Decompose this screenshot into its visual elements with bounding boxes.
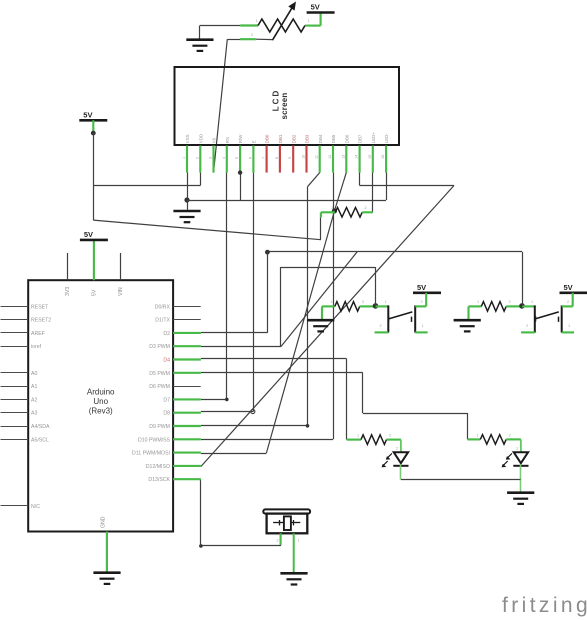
svg-text:1: 1 [182, 157, 186, 159]
svg-text:2: 2 [396, 447, 398, 451]
pot wiper leg [240, 38, 256, 40]
svg-text:E: E [252, 140, 257, 143]
pushbutton S1 lever [389, 312, 413, 322]
wire D5 to R4 [201, 373, 468, 440]
svg-text:D12/MISO: D12/MISO [146, 464, 170, 470]
svg-text:13: 13 [341, 155, 345, 159]
label LCD [272, 89, 281, 111]
LCD pin leg LED+ [372, 146, 374, 173]
pushbutton S1 right contact [415, 305, 427, 332]
Arduino label D13/SCK [148, 477, 170, 483]
LCD pin number DB5 [328, 155, 332, 159]
Arduino label D2 [163, 331, 170, 337]
dot RW leg end [238, 170, 242, 174]
svg-text:D4: D4 [163, 358, 170, 364]
wire 5V to VDD [93, 133, 200, 185]
LCD pin label DB2 [291, 134, 296, 143]
Arduino pin D6 PWM [173, 386, 201, 388]
svg-text:1: 1 [477, 300, 479, 304]
wire 5V to backlight resistor [93, 186, 321, 240]
LCD pin leg DB2 [292, 146, 294, 173]
power 5V (Arduino) [80, 230, 108, 240]
svg-text:AREF: AREF [31, 331, 45, 337]
svg-text:2: 2 [251, 33, 253, 37]
ground GND4 (piezo) [280, 573, 307, 584]
svg-text:N/C: N/C [31, 504, 40, 510]
wire D4 to R3 [201, 359, 347, 440]
LCD pin leg DB4 [319, 146, 321, 173]
svg-text:DB7: DB7 [358, 134, 363, 143]
svg-text:9: 9 [288, 157, 292, 159]
LED LED2 [502, 452, 529, 467]
piezo crystal [273, 516, 300, 530]
svg-text:1: 1 [256, 19, 258, 23]
terminal speck 18 [298, 539, 300, 543]
LCD screen U2 body [175, 67, 400, 145]
svg-text:D5 PWM: D5 PWM [149, 371, 170, 377]
svg-text:D8: D8 [163, 411, 170, 417]
LCD pin label LED+ [371, 132, 376, 144]
LCD pin number DB6 [341, 155, 345, 159]
svg-text:1: 1 [477, 434, 479, 438]
Arduino label D4 [163, 358, 170, 364]
svg-text:2: 2 [389, 434, 391, 438]
svg-text:VSS: VSS [185, 134, 190, 143]
Arduino pin D0/RX [173, 306, 201, 308]
pot wiper arrow [272, 3, 295, 41]
Arduino pin 3V3 [67, 253, 69, 280]
svg-text:A0: A0 [31, 371, 37, 377]
Arduino pin D3 PWM [173, 345, 201, 347]
label Uno [93, 397, 108, 406]
LCD pin leg DB5 [332, 146, 334, 173]
backlight resistor R2 right leg [362, 211, 373, 213]
svg-text:2: 2 [567, 300, 569, 304]
terminal speck 24 [568, 324, 570, 328]
Arduino pin A5/SCL [1, 439, 29, 441]
junction dot 5V-LCD [91, 131, 96, 136]
terminal speck 11 [389, 434, 391, 438]
svg-text:16: 16 [381, 155, 385, 159]
wire S2 to D2 [201, 250, 523, 333]
svg-text:2: 2 [277, 539, 279, 543]
wire DB6 to D11 [201, 173, 346, 454]
resistor S2 [481, 302, 506, 312]
Arduino pin GND [106, 532, 108, 572]
backlight resistor R2 [335, 208, 362, 218]
svg-text:2: 2 [509, 434, 511, 438]
LCD pin leg VDD [199, 146, 201, 173]
LCD pin number LED+ [368, 155, 372, 159]
Arduino label D7 [163, 397, 170, 403]
svg-text:3V3: 3V3 [65, 287, 71, 296]
pot left leg [240, 24, 258, 26]
resistor R3 [361, 435, 387, 445]
LCD pin leg V0 [212, 146, 214, 173]
ground GND2 (VSS) [173, 200, 200, 222]
LCD pin label DB0 [265, 134, 270, 143]
terminal speck 2 [331, 300, 333, 304]
svg-text:DB3: DB3 [305, 134, 310, 143]
Arduino pin D1/TX [173, 319, 201, 321]
LCD pin number E [248, 157, 252, 159]
Arduino label GND [101, 516, 107, 528]
resistor S2 left leg [469, 305, 482, 307]
svg-text:1: 1 [308, 19, 310, 23]
power 5V (S2) [560, 283, 587, 293]
junction dot VSS [184, 197, 189, 202]
ground GND1 (pot) [186, 26, 213, 51]
svg-text:D6 PWM: D6 PWM [149, 384, 170, 390]
Arduino pin D9 PWM [173, 425, 201, 427]
svg-text:1: 1 [422, 324, 424, 328]
Arduino label AREF [31, 331, 45, 337]
resistor R3 right leg [387, 440, 401, 453]
svg-text:V0: V0 [212, 137, 217, 143]
Arduino top label VIN [118, 287, 124, 296]
LCD pin number R/W [235, 157, 239, 159]
junction dot DB6 bend [332, 208, 337, 213]
Arduino label D5 PWM [149, 371, 170, 377]
svg-text:12: 12 [328, 155, 332, 159]
Arduino label A0 [31, 371, 37, 377]
svg-text:D9 PWM: D9 PWM [149, 424, 170, 430]
svg-text:A5/SCL: A5/SCL [31, 437, 49, 443]
LCD pin number DB2 [288, 157, 292, 159]
LCD pin number VDD [195, 157, 199, 159]
svg-text:2: 2 [380, 324, 382, 328]
resistor R4 right leg [506, 439, 521, 452]
Arduino pin RESET [1, 306, 29, 308]
svg-text:1: 1 [385, 300, 387, 304]
pushbutton S2 left contact [521, 305, 535, 332]
wire DB7 to D12 diagonal [201, 186, 454, 467]
Arduino pin AREF [1, 332, 29, 334]
potentiometer R1 zigzag [258, 19, 305, 32]
Arduino pin D8 [173, 412, 201, 414]
svg-text:D1/TX: D1/TX [155, 318, 170, 324]
label Arduino [87, 388, 115, 397]
wire E to D8 [201, 173, 255, 414]
Arduino pin A2 [1, 399, 29, 401]
resistor S2 right leg [506, 305, 522, 307]
svg-text:(Rev3): (Rev3) [89, 407, 113, 416]
terminal speck 4 [385, 300, 387, 304]
LCD pin number DB3 [302, 155, 306, 159]
Arduino label A1 [31, 384, 37, 390]
label screen [280, 93, 289, 120]
LCD pin label LED- [384, 133, 389, 144]
junction dot S2 [519, 303, 525, 309]
svg-text:GND: GND [101, 516, 107, 528]
Arduino pin ioref [1, 346, 29, 348]
svg-text:4: 4 [222, 157, 226, 159]
svg-text:LED+: LED+ [371, 132, 376, 144]
power 5V (LCD VDD) [79, 110, 107, 120]
wire LED- down [386, 173, 388, 200]
Arduino label D10 PWM/SS [138, 437, 171, 443]
svg-text:6: 6 [248, 157, 252, 159]
svg-text:8: 8 [275, 157, 279, 159]
wire piezo to D13 [199, 479, 281, 547]
svg-text:1: 1 [568, 324, 570, 328]
resistor R3 left leg [347, 439, 361, 441]
LCD pin label RS [225, 137, 230, 143]
wire DB4 to D9 [201, 173, 320, 428]
svg-text:A4/SDA: A4/SDA [31, 424, 50, 430]
svg-text:2: 2 [195, 157, 199, 159]
svg-text:Arduino: Arduino [87, 388, 115, 397]
svg-text:D0/RX: D0/RX [155, 304, 171, 310]
Arduino label D6 PWM [149, 384, 170, 390]
LCD pin leg DB3 [305, 146, 307, 173]
Arduino label RESET [31, 304, 49, 310]
Arduino label ioref [31, 344, 42, 350]
fritzing watermark [502, 594, 587, 617]
Arduino label A3 [31, 411, 37, 417]
svg-text:DB6: DB6 [344, 134, 349, 143]
svg-text:D2: D2 [163, 331, 170, 337]
power 5V (S1) [413, 283, 441, 293]
LCD pin number VSS [182, 157, 186, 159]
wire LED1 cathode [400, 465, 402, 480]
svg-text:1: 1 [331, 300, 333, 304]
piezo pin 1 leg [280, 533, 282, 544]
Arduino label D11 PWM/MOSI [132, 451, 170, 457]
LCD pin leg RS [226, 146, 228, 173]
svg-text:D7: D7 [163, 397, 170, 403]
svg-text:5V: 5V [564, 283, 573, 292]
Arduino pin D5 PWM [173, 372, 201, 374]
Arduino pin 5V [93, 241, 95, 280]
wire VSS down [187, 173, 189, 200]
svg-text:Uno: Uno [93, 397, 108, 406]
terminal speck 16 [308, 19, 310, 23]
svg-text:DB0: DB0 [265, 134, 270, 143]
terminal speck 23 [526, 324, 528, 328]
Arduino label N/C [31, 504, 40, 510]
svg-text:10: 10 [302, 155, 306, 159]
svg-text:D11 PWM/MOSI: D11 PWM/MOSI [132, 451, 170, 457]
wire diagonal (D3 riser to button net) [281, 252, 357, 347]
terminal speck 20 [516, 447, 518, 451]
svg-text:D10 PWM/SS: D10 PWM/SS [138, 437, 171, 443]
pushbutton S1 left contact [375, 305, 389, 332]
LCD pin leg DB6 [345, 146, 347, 173]
terminal speck 21 [380, 324, 382, 328]
resistor R4 [480, 435, 506, 445]
svg-text:RS: RS [225, 137, 230, 143]
Arduino pin D4 [173, 358, 201, 360]
LCD pin leg E [252, 146, 254, 173]
LCD pin label DB7 [358, 134, 363, 143]
Arduino label RESET2 [31, 318, 51, 324]
svg-text:RESET2: RESET2 [31, 318, 51, 324]
terminal speck 14 [256, 19, 258, 23]
LCD pin number DB0 [262, 157, 266, 159]
svg-text:DB2: DB2 [291, 134, 296, 143]
terminal speck 12 [477, 434, 479, 438]
wire DB7 corner [360, 173, 455, 186]
Arduino pin D10 PWM/SS [173, 438, 201, 440]
pushbutton S2 lever [535, 312, 559, 322]
svg-text:5V: 5V [83, 110, 92, 119]
svg-text:ioref: ioref [31, 344, 42, 350]
svg-text:DB4: DB4 [318, 134, 323, 143]
svg-text:DB5: DB5 [331, 134, 336, 143]
svg-text:LED-: LED- [384, 133, 389, 144]
LCD pin number LED- [381, 155, 385, 159]
svg-text:2: 2 [362, 300, 364, 304]
Arduino label D12/MISO [146, 464, 170, 470]
LCD pin label DB3 [305, 134, 310, 143]
5V stub (S1) [425, 293, 427, 307]
backlight resistor R2 left leg [321, 212, 335, 217]
LCD pin label R/W [238, 134, 243, 143]
resistor R4 left leg [467, 438, 480, 440]
svg-text:5V: 5V [311, 3, 320, 12]
LCD pin number DB4 [315, 155, 319, 159]
wire pot wiper [227, 38, 272, 40]
Arduino pin A1 [1, 386, 29, 388]
svg-text:2: 2 [509, 300, 511, 304]
svg-text:VIN: VIN [118, 287, 124, 296]
wire RW to gnd net [240, 173, 242, 200]
resistor S1 right leg [360, 305, 376, 307]
Arduino pin D11 PWM/MOSI [173, 452, 201, 454]
Arduino pin A4/SDA [1, 426, 29, 428]
Arduino label D3 PWM [149, 344, 170, 350]
svg-text:A1: A1 [31, 384, 37, 390]
resistor S1 left leg [322, 305, 335, 307]
ground GND5 (Arduino) [93, 573, 120, 584]
terminal speck 10 [357, 434, 359, 438]
5V stub (S2) [572, 293, 574, 307]
5V stub [92, 120, 94, 133]
Arduino top label 3V3 [65, 287, 71, 296]
svg-text:15: 15 [368, 155, 372, 159]
LCD pin leg R/W [239, 146, 241, 173]
piezo speaker PZ1 body [263, 509, 310, 533]
wire wiper to LCD V0 [214, 39, 228, 172]
svg-text:screen: screen [280, 93, 289, 120]
svg-text:14: 14 [355, 155, 359, 159]
Arduino pin A3 [1, 412, 29, 414]
svg-text:2: 2 [421, 300, 423, 304]
LCD pin label DB4 [318, 134, 323, 143]
svg-text:A2: A2 [31, 397, 37, 403]
LCD pin leg LED- [385, 146, 387, 173]
svg-text:1: 1 [331, 206, 333, 210]
LCD pin number V0 [209, 157, 213, 159]
LCD pin label VDD [198, 134, 203, 143]
LCD pin leg DB7 [359, 146, 361, 173]
LCD pin number RS [222, 157, 226, 159]
Arduino pin VIN [120, 253, 122, 280]
LCD pin label VSS [185, 134, 190, 143]
svg-text:fritzing: fritzing [502, 594, 587, 617]
svg-text:5V: 5V [84, 230, 93, 239]
svg-text:R/W: R/W [238, 134, 243, 143]
terminal speck 8 [531, 300, 533, 304]
ground GND (S1) [307, 306, 334, 331]
terminal speck 22 [422, 324, 424, 328]
terminal speck 6 [477, 300, 479, 304]
terminal speck 13 [509, 434, 511, 438]
terminal speck 17 [277, 539, 279, 543]
svg-text:1: 1 [516, 447, 518, 451]
svg-text:7: 7 [262, 157, 266, 159]
Arduino pin N/C [1, 505, 29, 507]
piezo pin 2 leg [293, 533, 295, 572]
Arduino label D0/RX [155, 304, 171, 310]
label Rev3 [89, 407, 113, 416]
Arduino pin D2 [173, 332, 201, 334]
Arduino pin A0 [1, 372, 29, 374]
Arduino label D8 [163, 411, 170, 417]
LCD pin leg DB0 [266, 146, 268, 173]
Arduino pin D12/MISO [173, 465, 201, 467]
svg-text:A3: A3 [31, 411, 37, 417]
LCD pin leg DB1 [279, 146, 281, 173]
power 5V (pot) [307, 3, 335, 13]
wire S1 to D3 [201, 267, 376, 347]
terminal speck 7 [509, 300, 511, 304]
Arduino label D9 PWM [149, 424, 170, 430]
svg-text:RESET: RESET [31, 304, 49, 310]
wire DB5 to D10 [201, 173, 334, 440]
LCD pin leg VSS [186, 146, 188, 173]
svg-text:D13/SCK: D13/SCK [148, 477, 170, 483]
wire RS to D7 [201, 173, 229, 402]
ground GND (S2) [454, 306, 481, 331]
svg-text:2: 2 [365, 206, 367, 210]
wire LED bus [401, 479, 521, 481]
Arduino Uno U1 body [28, 280, 173, 531]
wire VSS to LED- [187, 200, 386, 202]
terminal speck 1 [365, 206, 367, 210]
Arduino pin RESET2 [1, 319, 29, 321]
terminal speck 0 [331, 206, 333, 210]
LED LED1 [382, 452, 409, 467]
svg-text:5: 5 [235, 157, 239, 159]
Arduino label A2 [31, 397, 37, 403]
svg-text:1: 1 [531, 300, 533, 304]
terminal speck 15 [251, 33, 253, 37]
LCD pin number DB7 [355, 155, 359, 159]
Arduino label A4/SDA [31, 424, 50, 430]
terminal speck 9 [567, 300, 569, 304]
ground GND3 (LEDs) [507, 480, 534, 504]
LCD pin number DB1 [275, 157, 279, 159]
svg-text:1: 1 [298, 539, 300, 543]
wire LED+ down [372, 173, 374, 213]
svg-text:1: 1 [357, 434, 359, 438]
svg-text:3: 3 [209, 157, 213, 159]
Arduino label A5/SCL [31, 437, 49, 443]
LCD pin label DB5 [331, 134, 336, 143]
Arduino top label 5V [92, 289, 98, 296]
Arduino pin D7 [173, 398, 201, 400]
svg-text:VDD: VDD [198, 134, 203, 143]
resistor S1 [335, 302, 360, 312]
terminal speck 19 [396, 447, 398, 451]
terminal speck 3 [362, 300, 364, 304]
svg-text:DB1: DB1 [278, 134, 283, 143]
terminal speck 5 [421, 300, 423, 304]
svg-text:5V: 5V [92, 289, 98, 296]
svg-text:2: 2 [526, 324, 528, 328]
